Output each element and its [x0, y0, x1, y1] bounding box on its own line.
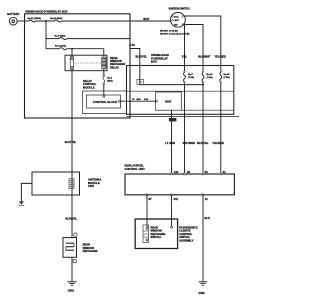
svg-text:WHT/RED: WHT/RED — [183, 141, 196, 145]
wire relay coil to fuse No.2 — [103, 69, 105, 75]
relay control module box — [83, 91, 127, 114]
svg-text:YEL/RED: YEL/RED — [212, 141, 224, 145]
svg-text:ACC: ACC — [174, 16, 179, 19]
terminal labels bottom — [149, 198, 209, 201]
svg-text:B11: B11 — [174, 199, 179, 201]
relay contact terminals — [70, 57, 73, 70]
wire branch to fuse No.9 — [46, 38, 59, 40]
svg-text:YEL: YEL — [182, 54, 188, 58]
fuse No.12 (100A) — [29, 20, 36, 22]
svg-text:BLK/YEL: BLK/YEL — [197, 141, 209, 145]
ignition hot-in text — [160, 30, 190, 35]
svg-text:No.9 (40A): No.9 (40A) — [55, 34, 66, 37]
defogger bottom terminal — [73, 259, 76, 262]
svg-text:BLU: BLU — [137, 99, 142, 101]
under-dash box internal divider — [127, 90, 234, 92]
rear window defogger switch label — [151, 226, 166, 240]
ground G502 — [199, 282, 207, 286]
svg-text:NAVI: NAVI — [165, 99, 171, 103]
svg-text:LT GRN: LT GRN — [165, 141, 175, 145]
svg-text:No.7: No.7 — [188, 74, 194, 76]
wire battery to under-hood box — [17, 20, 24, 22]
svg-text:CONTROL BLOCK: CONTROL BLOCK — [93, 100, 118, 104]
ground (antenna module) — [19, 201, 25, 205]
svg-text:ASSEMBLY: ASSEMBLY — [179, 238, 193, 242]
svg-text:(40A): (40A) — [107, 80, 113, 83]
ignition switch terminal labels — [174, 16, 179, 27]
under-hood fuse/relay box — [25, 14, 131, 118]
connector square on bus — [137, 79, 144, 84]
relay coil — [102, 57, 106, 68]
terminal labels top — [174, 171, 226, 174]
relay contact dashed line — [75, 62, 101, 64]
wire junction A down — [45, 21, 47, 49]
relay label — [110, 56, 125, 70]
passenger's climate control label — [179, 226, 198, 243]
ground G501 — [67, 282, 76, 286]
svg-text:MODULE: MODULE — [83, 85, 95, 89]
wire battery feed (main, y=21) — [25, 20, 29, 22]
control block top terminal — [103, 95, 105, 97]
control block box — [87, 95, 121, 108]
relay: rear window defogger relay box — [65, 55, 107, 70]
wire stub into relay left — [71, 49, 73, 57]
wire YEL from ignition — [184, 23, 186, 65]
wire branch to fuse No.8 — [46, 48, 59, 50]
under-dash box label — [151, 53, 169, 63]
antenna module unit box — [32, 172, 80, 195]
under-dash box lower line — [127, 115, 240, 117]
svg-text:(7.5A): (7.5A) — [207, 76, 213, 79]
wire fuse No.9 to right border corner — [67, 39, 203, 85]
svg-text:YEL/RED: YEL/RED — [214, 54, 226, 58]
svg-text:IG2 HOT in ON (II): IG2 HOT in ON (II) — [160, 30, 178, 32]
fuse No.2 (40A) — [103, 75, 105, 85]
svg-text:BLK/YEL: BLK/YEL — [65, 140, 77, 144]
junction dot A — [45, 20, 47, 22]
svg-text:BAT: BAT — [175, 19, 180, 22]
wire stub into relay coil — [103, 49, 105, 58]
svg-text:(7.5A): (7.5A) — [224, 76, 230, 79]
fuse No.22 (7.5A) — [220, 66, 222, 71]
svg-text:BLK/YEL: BLK/YEL — [66, 216, 78, 220]
svg-text:No.12 (100A): No.12 (100A) — [28, 17, 42, 20]
wire antenna module to ground — [21, 183, 32, 201]
svg-text:(7.5A): (7.5A) — [188, 76, 194, 79]
svg-text:A14: A14 — [174, 171, 179, 174]
svg-text:BLK/WHT: BLK/WHT — [198, 54, 211, 58]
wire YEL/RED fuse No.22 down — [220, 116, 222, 174]
defogger grid element — [66, 243, 74, 250]
wire YEL/RED from ignition — [184, 16, 221, 66]
wire WHT/RED fuse No.7 down — [184, 116, 186, 174]
wire defogger to ground G501 — [71, 257, 73, 281]
display/fuel control unit label — [125, 164, 146, 171]
svg-text:IG2 HOT in ACC (I) and ON (II): IG2 HOT in ACC (I) and ON (II) — [160, 32, 190, 35]
svg-text:BLK/YEL: BLK/YEL — [136, 55, 148, 59]
junction dot bus/fuse No.10 — [202, 84, 204, 86]
under-dash fuse/relay box — [127, 66, 234, 115]
wire LT GRN radio box down to control unit — [171, 110, 173, 174]
radio box left terminal — [155, 100, 157, 102]
svg-text:CONTROL UNIT: CONTROL UNIT — [125, 167, 146, 171]
display/fuel control unit box — [125, 174, 234, 195]
relay control module label — [83, 79, 97, 89]
svg-text:No.10: No.10 — [207, 74, 214, 76]
rear window defogger box — [63, 238, 77, 258]
wire B7 to defogger switch — [146, 195, 148, 227]
control unit terminals — [146, 173, 222, 196]
svg-text:IGNITION SWITCH: IGNITION SWITCH — [169, 8, 190, 11]
fuse No.21 (80A) — [54, 20, 62, 22]
defogger switch contacts — [143, 225, 149, 243]
svg-text:No.22: No.22 — [224, 74, 231, 76]
svg-text:UNDER-HOOD FUSE/RELAY BOX: UNDER-HOOD FUSE/RELAY BOX — [25, 10, 68, 14]
svg-text:UNIT: UNIT — [88, 184, 95, 188]
wire radio box bottom line to right border — [181, 109, 234, 111]
control block right terminal — [119, 100, 121, 102]
fuse No.10 (7.5A) — [202, 66, 204, 71]
svg-text:WHT: WHT — [143, 17, 149, 21]
fuse No.8 (30A) — [59, 48, 67, 50]
defogger top terminal — [74, 233, 77, 236]
passenger's climate control switch assembly box — [135, 219, 177, 249]
wire fuse No.8 to relay — [67, 48, 104, 50]
connector label blob — [169, 118, 176, 121]
wire control block to radio box — [121, 100, 156, 102]
connector B4 dot — [129, 44, 131, 46]
defogger switch terminal (B11) — [171, 226, 173, 228]
antenna module noise condenser — [69, 179, 74, 189]
svg-text:BLK: BLK — [205, 216, 211, 220]
svg-text:SWITCH: SWITCH — [151, 235, 161, 239]
battery B1 — [9, 17, 17, 25]
svg-text:No.21 (80A): No.21 (80A) — [50, 17, 62, 20]
wire WHT fuse No.21 to ignition switch — [62, 20, 171, 22]
svg-text:BATTERY: BATTERY — [7, 12, 20, 16]
junction dot relay feed — [71, 48, 73, 50]
fuse No.9 (40A) — [59, 38, 67, 40]
fuse No.7 (7.5A) — [184, 66, 186, 71]
wire BLK/YEL fuse No.10 down — [202, 116, 204, 174]
wire fuse No.12 to junction — [36, 20, 54, 22]
svg-text:RELAY: RELAY — [110, 65, 119, 69]
ignition switch — [171, 12, 186, 27]
svg-text:No.2: No.2 — [107, 78, 113, 80]
svg-text:No.8 (30A): No.8 (30A) — [55, 44, 66, 47]
svg-text:BOX: BOX — [151, 60, 157, 64]
svg-text:DEFOGGER: DEFOGGER — [83, 249, 98, 253]
wire B11 to defogger switch — [171, 195, 173, 226]
svg-text:G501: G501 — [68, 290, 75, 293]
junction dot at BLK/YEL vertical — [129, 100, 131, 102]
wire BLK/WHT from ignition — [185, 25, 203, 66]
rear window defogger label — [83, 243, 98, 253]
radio box (audio unit relay) — [155, 92, 181, 110]
wire BLK A1 down to ground — [202, 195, 204, 281]
wire relay output down (BLK/YEL main) — [71, 70, 73, 238]
antenna module label — [88, 178, 101, 188]
wire fuse No.2 to control block — [103, 85, 105, 96]
svg-text:G502: G502 — [199, 292, 206, 295]
